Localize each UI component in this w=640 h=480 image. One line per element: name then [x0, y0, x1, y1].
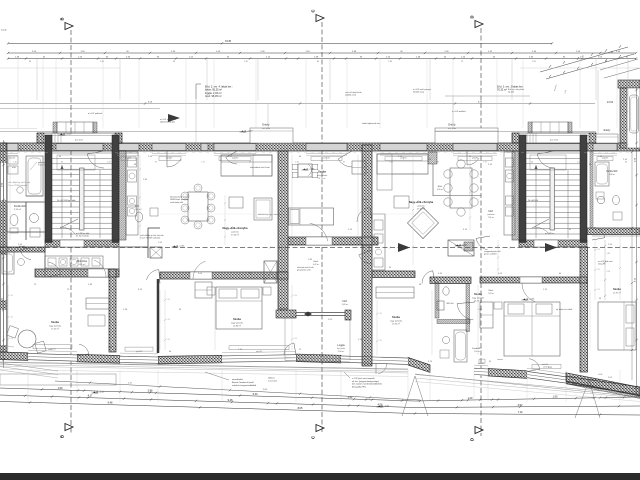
loggia walls [285, 318, 350, 362]
balcony door arc unit3 [338, 151, 352, 167]
svg-text:7,05 m²: 7,05 m² [488, 216, 495, 219]
bottom exterior wall [0, 352, 640, 395]
balcony door arc unit4a [467, 151, 479, 165]
bottom sill lines [0, 362, 640, 397]
svg-text:pm 4.81: pm 4.81 [550, 140, 559, 142]
svg-text:2,95 m²: 2,95 m² [474, 350, 480, 353]
svg-text:gravitációs szell.: gravitációs szell. [297, 269, 311, 272]
svg-text:pm0.30: pm0.30 [256, 351, 262, 353]
svg-text:m+1.05 mell. parapet: m+1.05 mell. parapet [413, 88, 431, 91]
kitchen counter flat5 [45, 256, 103, 268]
svg-text:Üveg PE.: Üveg PE. [598, 263, 606, 266]
bottom dim line 3 [0, 401, 640, 416]
mid horizontal wall left unit [35, 269, 119, 277]
svg-text:7.5cm YTONG: 7.5cm YTONG [38, 165, 51, 167]
svg-text:11,75 m²: 11,75 m² [318, 177, 326, 180]
svg-text:ablakmellvéd épít.: ablakmellvéd épít. [160, 121, 176, 124]
coffee table unit3 [394, 196, 409, 208]
label Loggia [337, 344, 346, 353]
svg-text:nagy parketta: nagy parketta [472, 297, 485, 300]
balcony Erkely 1 [250, 123, 293, 144]
section line B (vertical dashed) [70, 30, 72, 433]
svg-text:160/85 bont. asztallap: 160/85 bont. asztallap [170, 198, 189, 201]
svg-text:étkezőasztal 6 szem.: étkezőasztal 6 szem. [170, 196, 188, 199]
faint guides rooms [160, 213, 430, 215]
note 4 [258, 213, 281, 216]
svg-text:szél. elf. építő kürtő: szél. elf. építő kürtő [345, 91, 361, 94]
bottom wall windows [28, 353, 566, 384]
svg-text:Szoba: Szoba [392, 315, 400, 319]
svg-text:szappankonyha dél: szappankonyha dél [484, 251, 501, 253]
svg-text:m+1.07 pad burk.: m+1.07 pad burk. [88, 112, 103, 115]
entry steps right porch [528, 122, 572, 133]
svg-text:9.48: 9.48 [108, 402, 113, 405]
kitchen counter right unit [504, 152, 515, 235]
svg-text:17,05 m²: 17,05 m² [51, 328, 59, 331]
door hall-bedroom left [46, 262, 61, 277]
svg-text:8.05: 8.05 [298, 407, 303, 410]
svg-text:pm0.30: pm0.30 [136, 351, 142, 353]
svg-text:Szoba: Szoba [318, 170, 326, 174]
mid horizontal wall left-mid unit [160, 272, 288, 279]
svg-text:pm 4.81: pm 4.81 [75, 140, 84, 142]
svg-text:Szoba: Szoba [233, 317, 241, 321]
svg-text:1.27: 1.27 [128, 383, 132, 385]
svg-text:táblázat: táblázat [268, 377, 275, 380]
svg-text:-1.32: -1.32 [99, 391, 105, 393]
svg-text:1.20: 1.20 [597, 269, 600, 271]
bathroom unit3 [435, 282, 470, 362]
svg-text:sző parketta: sző parketta [317, 174, 328, 177]
svg-text:1.30: 1.30 [13, 162, 17, 164]
section line C (vertical dashed) [321, 22, 323, 433]
section marker B top [60, 17, 74, 29]
label Furdo left [14, 205, 26, 211]
top wall inner texture [10, 152, 629, 154]
svg-text:Közl.: Közl. [488, 210, 494, 213]
svg-text:Loggia: Loggia [337, 344, 345, 347]
washbasin left unit [30, 214, 41, 238]
svg-text:elszívott szell. kürtő: elszívott szell. kürtő [297, 266, 314, 269]
svg-text:nagy parketta: nagy parketta [231, 322, 244, 325]
radiators top [121, 157, 613, 161]
door unit2 bedroom [147, 270, 161, 284]
svg-text:strandkorlát: strandkorlát [232, 378, 243, 381]
svg-text:75: 75 [461, 61, 463, 63]
tiny text left edge [1, 30, 8, 32]
info text block flat 4 [196, 84, 233, 99]
svg-text:15,94 m²: 15,94 m² [392, 323, 400, 326]
balcony rail lines [0, 129, 596, 132]
svg-text:elszívódású szell. kürtő: elszívódású szell. kürtő [250, 166, 270, 169]
shaft box A [264, 261, 277, 283]
svg-text:terasz: terasz [497, 358, 502, 361]
svg-text:+4.35: +4.35 [179, 245, 185, 247]
svg-text:Erkély: Erkély [262, 123, 270, 127]
secondary dimension line 2 [0, 96, 530, 109]
svg-text:95: 95 [155, 162, 157, 164]
svg-text:85: 85 [61, 162, 63, 164]
secondary dimension line [0, 100, 614, 105]
section arrow 1 [398, 243, 410, 252]
note 1 [30, 161, 51, 170]
elevation mark 1 [302, 168, 316, 170]
svg-text:Közl.: Közl. [342, 300, 348, 303]
elevation mark 5 [240, 130, 254, 132]
svg-text:5.30: 5.30 [253, 393, 258, 396]
door mid wall [190, 261, 212, 279]
right top dim string [626, 92, 628, 148]
right edge dim chain 2 [631, 150, 633, 380]
svg-text:13.62: 13.62 [607, 100, 614, 104]
bed far right [598, 302, 636, 350]
svg-text:ker. járda: ker. járda [337, 347, 346, 350]
note 2 [140, 234, 164, 240]
bath right wall unit3 [466, 284, 470, 332]
svg-text:76,32 m²: 76,32 m² [497, 89, 507, 92]
bed unit2 [207, 287, 271, 329]
left exterior wall [0, 143, 7, 352]
svg-text:1.20: 1.20 [379, 340, 382, 342]
svg-text:+3.98: +3.98 [598, 374, 603, 376]
svg-text:gravit. szellőző: gravit. szellőző [484, 253, 497, 256]
svg-text:85: 85 [343, 162, 345, 164]
extension lines [37, 58, 628, 100]
door unit3 kitchen [359, 250, 372, 264]
svg-text:kelt. járda: kelt. járda [262, 127, 271, 130]
dimension line row 3 [7, 57, 637, 60]
svg-text:pm0.30: pm0.30 [478, 363, 484, 365]
svg-text:nagy parketta: nagy parketta [49, 325, 62, 328]
svg-text:hővédő üveg: hővédő üveg [413, 92, 424, 94]
svg-text:észak: észak [1, 30, 8, 32]
label middle room [317, 170, 328, 180]
svg-text:pm0.90: pm0.90 [9, 158, 15, 160]
shaft box B [150, 247, 162, 258]
svg-text:7,05 m²: 7,05 m² [488, 292, 494, 295]
note 5 [297, 266, 314, 272]
balcony door arc unit2b [226, 151, 237, 164]
bottom dim line 2 [0, 395, 640, 409]
single bed middle room [289, 208, 334, 225]
label bath unit3 [446, 303, 482, 353]
left entrance porch [37, 133, 122, 143]
note 8 [413, 88, 431, 94]
door unit4 hall [476, 236, 490, 250]
terrain lines left [0, 345, 58, 378]
sofa unit2 [221, 155, 272, 220]
annotation block bottom mid [344, 372, 383, 388]
top exterior wall [0, 143, 640, 151]
window sills top [6, 154, 617, 160]
svg-text:D: D [470, 438, 475, 441]
extension verticals bottom [28, 370, 620, 402]
wardrobe unit3 [376, 287, 414, 298]
unit wall D vertical [580, 247, 588, 372]
svg-text:1.75: 1.75 [483, 162, 487, 164]
wardrobe unit4 [480, 302, 493, 328]
svg-text:m+1.07 pad burkol.: m+1.07 pad burkol. [160, 118, 177, 121]
svg-text:38: 38 [605, 61, 607, 63]
wardrobe left unit [86, 298, 109, 326]
svg-text:-1.32: -1.32 [384, 405, 390, 407]
section marker D top [470, 15, 484, 27]
right stair landing wall [519, 240, 587, 247]
thin wall x158 [157, 279, 160, 353]
closet box unit3 [448, 240, 474, 256]
svg-text:kettős légbeömlő rács: kettős légbeömlő rács [362, 122, 380, 125]
svg-text:1.50: 1.50 [553, 396, 558, 399]
bottom wall footing right [567, 381, 640, 399]
leader lines bottom [402, 376, 600, 418]
svg-text:1.20: 1.20 [597, 249, 600, 251]
bed unit4 left [494, 302, 560, 356]
kitchen wall strip [119, 151, 126, 240]
note 6 [345, 91, 361, 97]
section marker D bottom [470, 427, 484, 442]
svg-text:C: C [311, 9, 316, 12]
mid horizontal wall unit4 [480, 277, 587, 283]
kitchen counter left-mid unit [126, 152, 138, 235]
note 10 [556, 308, 573, 311]
svg-text:1.20: 1.20 [167, 319, 170, 321]
inner guide lines [10, 155, 590, 355]
svg-text:Erkély: Erkély [448, 123, 456, 127]
svg-text:60: 60 [249, 162, 251, 164]
svg-text:45: 45 [173, 61, 175, 63]
door flat5 bath [20, 248, 32, 260]
svg-text:1.20: 1.20 [294, 295, 297, 297]
section arrow 3 [168, 114, 180, 122]
left edge dim chain [2, 140, 5, 368]
partition left wc [7, 205, 45, 232]
svg-text:parketta: parketta [488, 213, 496, 216]
svg-text:Fürdő+WC: Fürdő+WC [606, 170, 618, 173]
svg-text:pm0.30: pm0.30 [543, 366, 549, 368]
svg-text:2,95 m²: 2,95 m² [14, 208, 21, 211]
WC left unit [10, 215, 18, 234]
extension lines 2 [196, 70, 598, 143]
info text block flat 3 [497, 86, 524, 92]
svg-text:alj. térkő ész. feltölt.: alj. térkő ész. feltölt. [556, 308, 573, 311]
svg-text:fm. lép. burkolat: fm. lép. burkolat [76, 235, 89, 238]
window top 3 [306, 143, 347, 151]
svg-text:Szoba: Szoba [51, 320, 59, 324]
hall side walls [45, 247, 119, 277]
svg-text:oldalfali szell.: oldalfali szell. [345, 95, 357, 97]
svg-text:m+1.38 ker.: m+1.38 ker. [545, 233, 555, 235]
svg-text:7.10: 7.10 [518, 411, 523, 414]
label bedroom unit4a [472, 292, 485, 303]
svg-text:D: D [470, 15, 475, 18]
svg-text:1.20: 1.20 [468, 397, 473, 400]
door middle room east [357, 207, 372, 222]
svg-text:3.98: 3.98 [148, 390, 153, 393]
note 14 [452, 111, 465, 113]
left wall window 2 [0, 255, 7, 300]
bottom dim line 0 [55, 381, 420, 400]
svg-text:10 x16,5/30 lépcsőfok: 10 x16,5/30 lépcsőfok [57, 200, 75, 202]
svg-text:1.05: 1.05 [532, 61, 536, 63]
svg-text:1.48: 1.48 [388, 61, 392, 63]
door left unit [88, 260, 108, 277]
elevation mark 8 [59, 133, 73, 135]
balcony top right [596, 129, 618, 143]
svg-text:1.20: 1.20 [167, 339, 170, 341]
svg-text:szék támla nélk.: szék támla nélk. [170, 201, 184, 204]
label bedroom far right [613, 287, 621, 295]
left small annotations [8, 166, 31, 187]
label bedroom unit2 [231, 317, 244, 328]
slanted dimension lines top right [540, 45, 640, 94]
svg-text:2.10: 2.10 [107, 162, 111, 164]
svg-text:2.10: 2.10 [607, 271, 611, 273]
svg-text:60: 60 [317, 61, 319, 63]
svg-text:Előszoba: Előszoba [77, 260, 88, 263]
svg-text:90: 90 [29, 61, 31, 63]
middle room door [306, 223, 332, 245]
svg-text:Bauné Citadora-fil profil: Bauné Citadora-fil profil [232, 381, 254, 384]
overall dimension line 33.35 [7, 40, 553, 45]
svg-text:erősített üvegszövetlábbál: erősített üvegszövetlábbál [232, 384, 257, 387]
svg-text:4,42 m²: 4,42 m² [313, 263, 319, 266]
WC room mid-left [119, 205, 160, 258]
right stair door [534, 227, 558, 247]
label Eloszoba [77, 260, 88, 266]
wardrobe middle room [352, 161, 366, 174]
label Elot unit3 [437, 185, 443, 191]
svg-text:27,64 m²: 27,64 m² [231, 234, 239, 237]
section marker B bottom [60, 424, 74, 439]
wardrobe line right [592, 235, 640, 237]
svg-text:B: B [60, 17, 65, 20]
french door bottom right [527, 359, 540, 372]
svg-text:±-1.32 járd. szint tempáló: ±-1.32 járd. szint tempáló [352, 377, 375, 380]
annotation small bottom [268, 377, 278, 383]
svg-text:60: 60 [531, 162, 533, 164]
svg-text:1.20: 1.20 [10, 295, 13, 297]
flat5 bath [2, 245, 26, 274]
left unit south vertical wall [109, 269, 116, 352]
coffee table unit2 [229, 197, 243, 208]
left stair landing wall [45, 240, 119, 247]
left stair treads [52, 153, 112, 238]
balcony door arc unit2 [167, 151, 181, 167]
right edge dim chain [635, 88, 638, 395]
right stairwell west wall [519, 135, 526, 243]
svg-text:+4.35: +4.35 [462, 244, 468, 246]
closet unit2 [195, 282, 212, 298]
mid horizontal wall unit3 bath [430, 277, 471, 284]
svg-text:7.5cm YTONG válaszfal: 7.5cm YTONG válaszfal [140, 238, 161, 240]
bathtub left unit [26, 156, 43, 196]
elevation mark 6 [377, 405, 390, 407]
svg-text:nagy parketta: nagy parketta [390, 320, 403, 323]
door Kozl unit3b [457, 302, 475, 320]
left wall window 1 [0, 163, 7, 200]
window top 5 [593, 143, 617, 151]
middle room south wall [288, 237, 378, 245]
section line D (vertical dashed) [480, 28, 482, 436]
svg-text:1.20: 1.20 [10, 317, 13, 319]
annotation block bottom left [205, 372, 257, 387]
svg-text:előt.: előt. [12, 166, 17, 169]
scattered dimension labels [18, 149, 628, 379]
top-right corner bath block [618, 80, 640, 148]
label bedroom left unit [49, 320, 62, 331]
svg-text:parketta: parketta [231, 231, 239, 234]
svg-text:pm0.90: pm0.90 [125, 158, 131, 160]
door porch left to hall [87, 151, 104, 168]
svg-text:Erkély: Erkély [604, 129, 611, 132]
note 15 [508, 88, 525, 94]
note 13 [88, 112, 103, 115]
faint guide line [0, 67, 640, 69]
svg-text:9.48: 9.48 [228, 399, 233, 402]
svg-text:B.fd. ép. irány kelet: B.fd. ép. irány kelet [508, 88, 525, 91]
terrace lines bottom [0, 363, 640, 402]
svg-text:4,80 m²: 4,80 m² [609, 173, 616, 176]
labels below dim row 3 [29, 61, 607, 63]
round table left unit [7, 326, 47, 354]
svg-text:+4.20: +4.20 [66, 133, 72, 135]
left wall window 3 [0, 310, 7, 345]
section line ticks [29, 246, 631, 248]
window top 1 [6, 143, 18, 151]
bathroom unit4 [590, 151, 622, 228]
right bath wall horizontal [587, 228, 640, 235]
svg-text:+4.35: +4.35 [529, 298, 535, 300]
svg-text:85: 85 [625, 162, 627, 164]
note 7 [362, 122, 380, 125]
left stairwell east wall [112, 135, 119, 243]
note unit2 dining [170, 196, 189, 204]
svg-text:2.10: 2.10 [389, 162, 393, 164]
svg-text:7.5cm YTONG válaszfal: 7.5cm YTONG válaszfal [8, 185, 28, 187]
mid horizontal wall unit3 upper [372, 271, 415, 278]
svg-text:Közl.: Közl. [314, 261, 319, 263]
terrace outline bottom left [0, 374, 116, 385]
svg-text:10 x16,5/30: 10 x16,5/30 [528, 200, 538, 202]
dining set unit2 [181, 184, 215, 229]
left unit bath partitions [7, 202, 45, 240]
svg-text:Fürdő+WC: Fürdő+WC [14, 205, 26, 208]
svg-text:1.20: 1.20 [379, 313, 382, 315]
kitchen counter unit3 [372, 214, 385, 270]
entrance door left stair [56, 143, 103, 151]
door unit3 bath [422, 271, 435, 284]
svg-text:WC: WC [135, 205, 139, 208]
svg-text:3.52: 3.52 [518, 404, 523, 407]
french door bottom left [77, 344, 89, 356]
loggia door arc [376, 363, 387, 374]
table middle room [292, 164, 318, 178]
unit wall B vertical [362, 145, 372, 366]
window sills bottom [28, 348, 566, 373]
svg-text:Közl.: Közl. [489, 290, 494, 292]
svg-text:Előt.: Előt. [438, 185, 443, 188]
entrance door right stair [523, 143, 580, 151]
svg-text:13,86 m²: 13,86 m² [233, 325, 241, 328]
right stair treads [526, 153, 580, 238]
bottom right labels [497, 358, 602, 376]
armchair rotated unit3 [407, 207, 438, 238]
note 3 [250, 166, 270, 169]
svg-text:1.5cm épít.: 1.5cm épít. [268, 379, 278, 382]
note 12 [160, 118, 177, 124]
svg-text:m+1.05 mellvéd: m+1.05 mellvéd [452, 111, 465, 113]
dining set unit3 [444, 160, 478, 216]
